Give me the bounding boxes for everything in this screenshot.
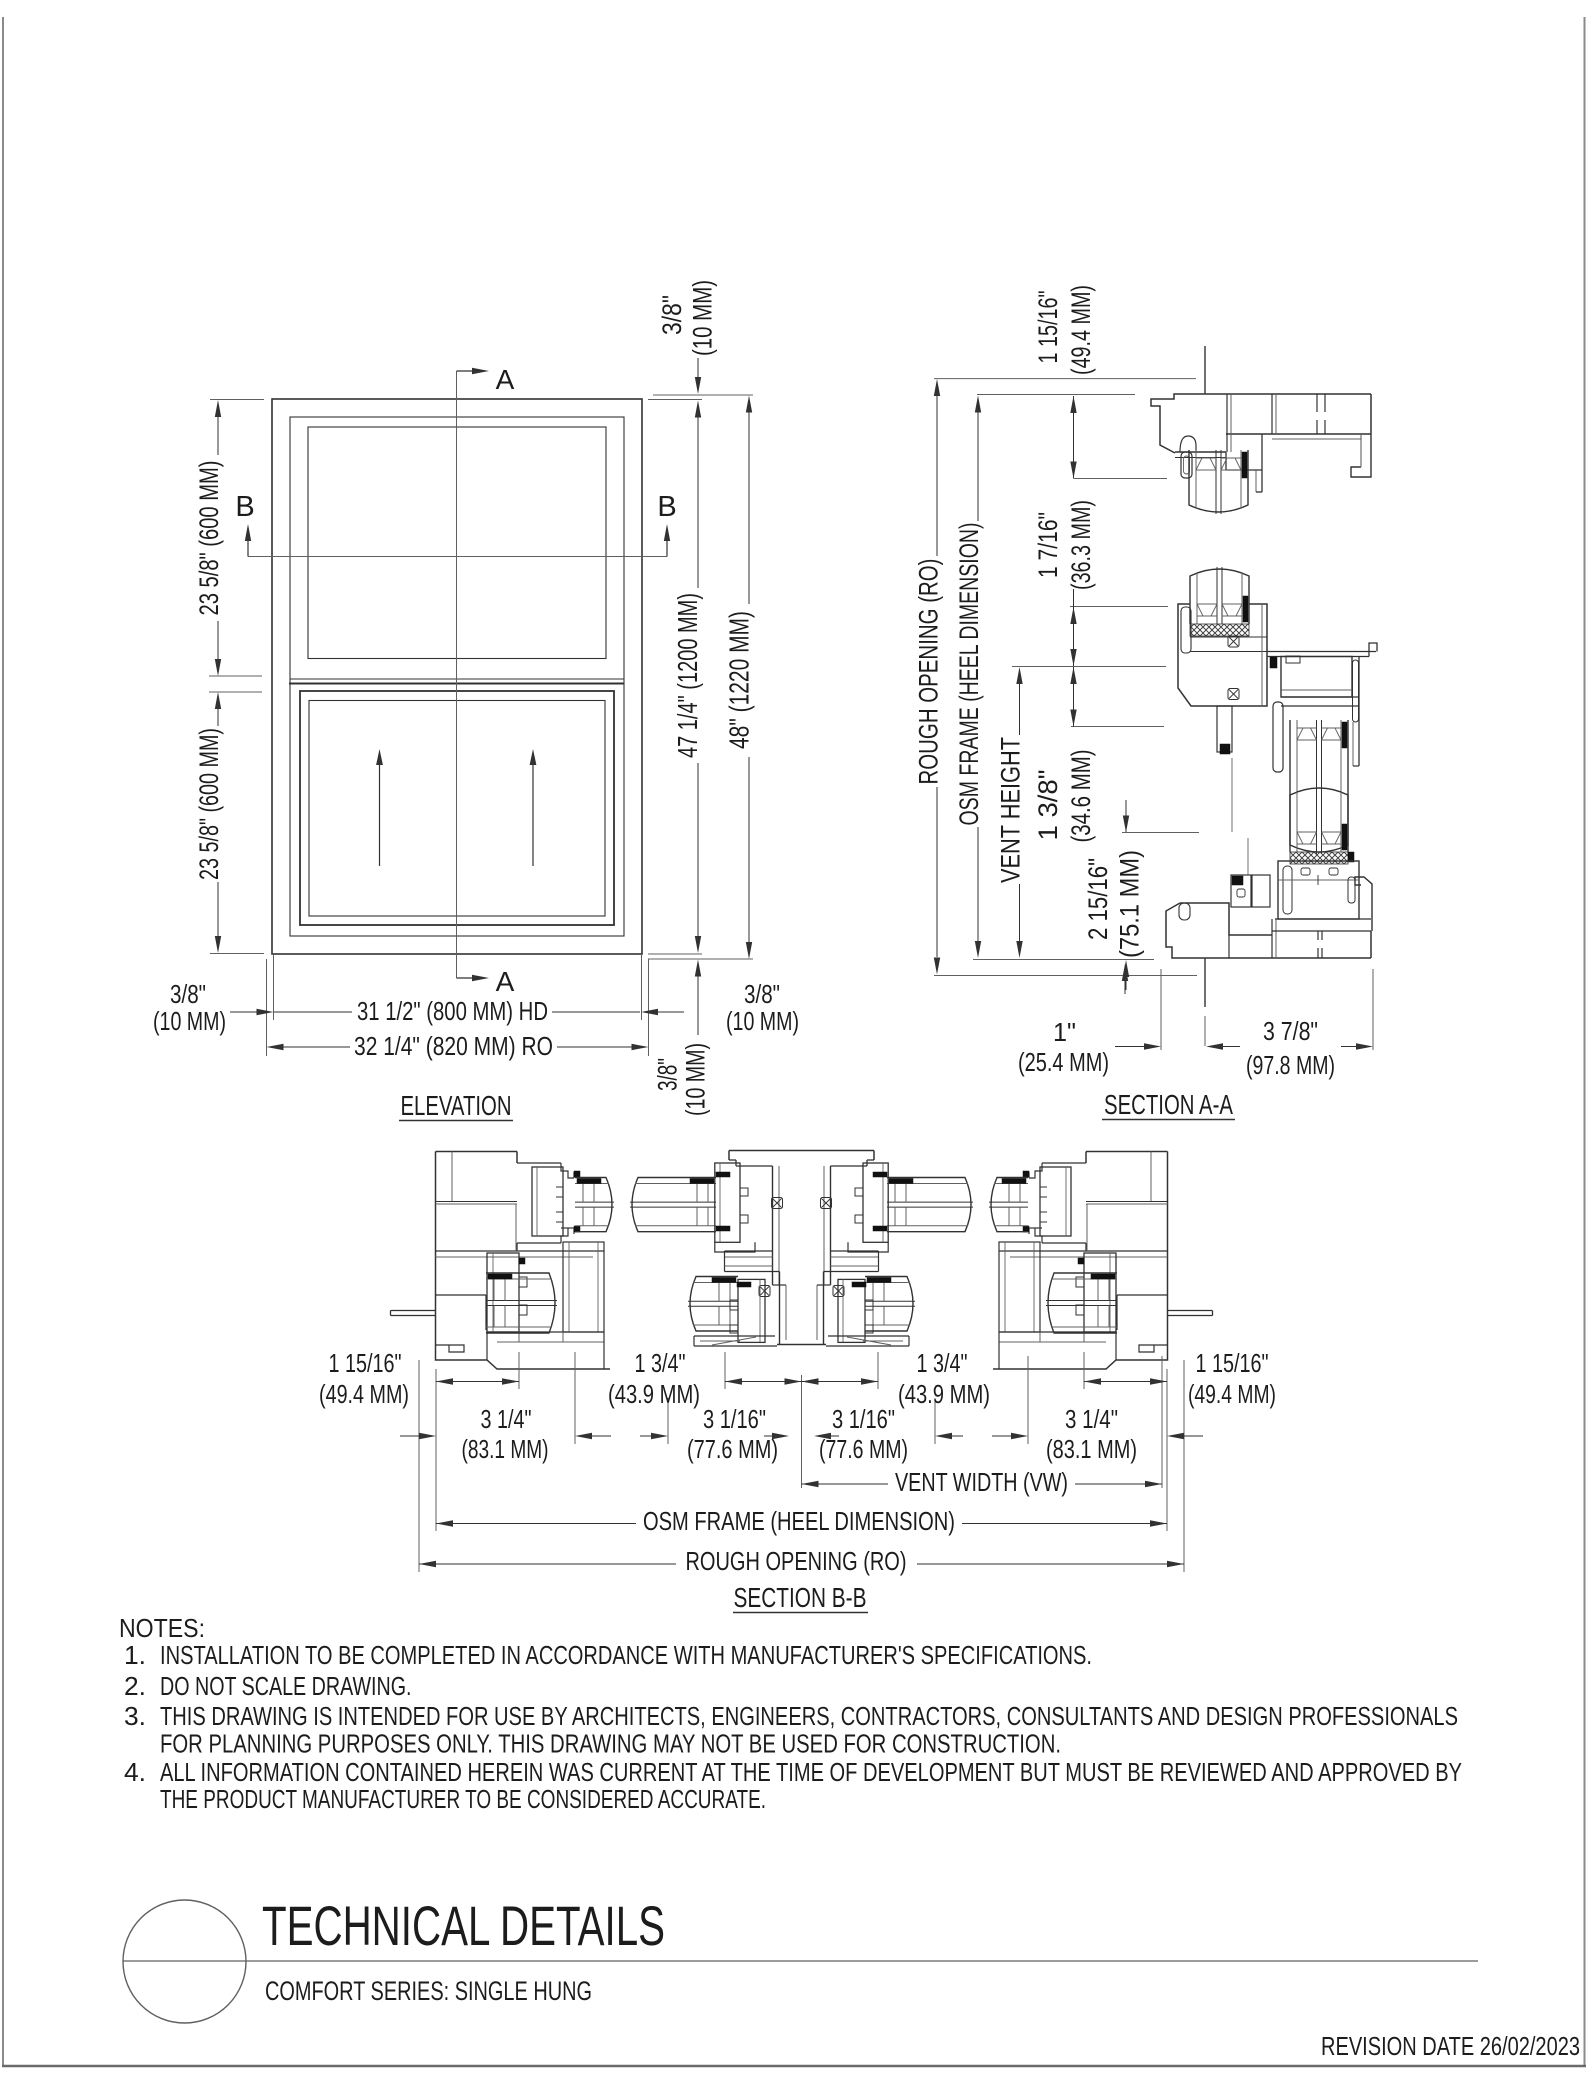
svg-text:1 15/16": 1 15/16" bbox=[1196, 1348, 1269, 1378]
svg-text:23 5/8" (600 MM): 23 5/8" (600 MM) bbox=[194, 728, 224, 880]
svg-text:(10 MM): (10 MM) bbox=[153, 1006, 226, 1036]
svg-text:ELEVATION: ELEVATION bbox=[401, 1090, 512, 1121]
svg-text:(36.3 MM): (36.3 MM) bbox=[1066, 500, 1096, 590]
svg-text:(25.4 MM): (25.4 MM) bbox=[1018, 1047, 1109, 1077]
svg-text:VENT WIDTH (VW): VENT WIDTH (VW) bbox=[895, 1467, 1068, 1497]
svg-text:SECTION A-A: SECTION A-A bbox=[1104, 1089, 1233, 1120]
svg-text:(75.1 MM): (75.1 MM) bbox=[1115, 850, 1145, 958]
svg-text:SECTION B-B: SECTION B-B bbox=[734, 1582, 867, 1613]
svg-text:1 3/4": 1 3/4" bbox=[917, 1348, 968, 1378]
svg-text:(49.4 MM): (49.4 MM) bbox=[1066, 285, 1096, 375]
svg-text:1 15/16": 1 15/16" bbox=[329, 1348, 402, 1378]
svg-text:VENT HEIGHT: VENT HEIGHT bbox=[996, 737, 1026, 883]
svg-text:23 5/8" (600 MM): 23 5/8" (600 MM) bbox=[194, 461, 224, 616]
svg-text:B: B bbox=[657, 491, 676, 523]
svg-text:ROUGH OPENING (RO): ROUGH OPENING (RO) bbox=[914, 559, 944, 785]
svg-text:NOTES:: NOTES: bbox=[119, 1613, 205, 1643]
svg-text:INSTALLATION TO BE COMPLETED I: INSTALLATION TO BE COMPLETED IN ACCORDAN… bbox=[160, 1640, 1092, 1670]
svg-text:3 1/4": 3 1/4" bbox=[1065, 1404, 1118, 1434]
svg-text:(10 MM): (10 MM) bbox=[688, 280, 718, 356]
svg-text:1.: 1. bbox=[124, 1640, 146, 1670]
svg-text:THIS DRAWING IS INTENDED FOR U: THIS DRAWING IS INTENDED FOR USE BY ARCH… bbox=[160, 1701, 1458, 1731]
svg-text:3 1/16": 3 1/16" bbox=[832, 1404, 895, 1434]
svg-text:B: B bbox=[235, 491, 254, 523]
svg-text:ROUGH OPENING (RO): ROUGH OPENING (RO) bbox=[686, 1546, 907, 1576]
svg-text:(10 MM): (10 MM) bbox=[726, 1006, 799, 1036]
svg-text:(77.6 MM): (77.6 MM) bbox=[819, 1434, 908, 1464]
svg-text:3/8": 3/8" bbox=[653, 1058, 683, 1091]
svg-text:4.: 4. bbox=[124, 1757, 146, 1787]
svg-text:3 7/8": 3 7/8" bbox=[1263, 1016, 1318, 1046]
svg-text:(43.9 MM): (43.9 MM) bbox=[608, 1379, 700, 1409]
svg-text:TECHNICAL DETAILS: TECHNICAL DETAILS bbox=[262, 1894, 665, 1957]
svg-text:1 3/4": 1 3/4" bbox=[635, 1348, 686, 1378]
svg-text:1": 1" bbox=[1053, 1017, 1076, 1047]
svg-text:(83.1 MM): (83.1 MM) bbox=[462, 1434, 549, 1464]
svg-text:DO NOT SCALE DRAWING.: DO NOT SCALE DRAWING. bbox=[160, 1671, 412, 1701]
svg-text:(83.1 MM): (83.1 MM) bbox=[1046, 1434, 1137, 1464]
svg-text:REVISION DATE 26/02/2023: REVISION DATE 26/02/2023 bbox=[1321, 2031, 1580, 2061]
svg-text:3.: 3. bbox=[124, 1701, 146, 1731]
svg-text:(49.4 MM): (49.4 MM) bbox=[1188, 1379, 1276, 1409]
svg-text:A: A bbox=[496, 364, 515, 395]
svg-text:FOR PLANNING PURPOSES ONLY. T: FOR PLANNING PURPOSES ONLY. THIS DRAWING… bbox=[160, 1729, 1061, 1759]
svg-text:OSM FRAME (HEEL DIMENSION): OSM FRAME (HEEL DIMENSION) bbox=[954, 523, 984, 826]
svg-text:THE PRODUCT MANUFACTURER TO BE: THE PRODUCT MANUFACTURER TO BE CONSIDERE… bbox=[160, 1784, 766, 1814]
svg-text:3/8": 3/8" bbox=[744, 979, 780, 1009]
svg-text:1 3/8": 1 3/8" bbox=[1033, 770, 1063, 841]
svg-text:(49.4 MM): (49.4 MM) bbox=[319, 1379, 409, 1409]
svg-text:1 7/16": 1 7/16" bbox=[1033, 512, 1063, 578]
svg-text:OSM FRAME (HEEL DIMENSION): OSM FRAME (HEEL DIMENSION) bbox=[643, 1506, 955, 1536]
svg-text:3 1/16": 3 1/16" bbox=[703, 1404, 766, 1434]
svg-text:47 1/4" (1200 MM): 47 1/4" (1200 MM) bbox=[672, 593, 703, 758]
svg-text:3 1/4": 3 1/4" bbox=[481, 1404, 532, 1434]
svg-text:(77.6 MM): (77.6 MM) bbox=[687, 1434, 778, 1464]
svg-text:3/8": 3/8" bbox=[170, 979, 206, 1009]
svg-text:COMFORT SERIES: SINGLE HUNG: COMFORT SERIES: SINGLE HUNG bbox=[265, 1976, 592, 2006]
svg-text:(10 MM): (10 MM) bbox=[681, 1043, 711, 1116]
svg-text:48" (1220 MM): 48" (1220 MM) bbox=[724, 611, 755, 749]
svg-text:31 1/2" (800 MM) HD: 31 1/2" (800 MM) HD bbox=[357, 996, 548, 1026]
svg-text:(97.8 MM): (97.8 MM) bbox=[1246, 1050, 1335, 1080]
svg-text:32 1/4" (820 MM) RO: 32 1/4" (820 MM) RO bbox=[354, 1031, 553, 1061]
svg-text:(43.9 MM): (43.9 MM) bbox=[898, 1379, 990, 1409]
svg-text:A: A bbox=[496, 966, 515, 997]
svg-text:1 15/16": 1 15/16" bbox=[1033, 291, 1063, 364]
svg-text:(34.6 MM): (34.6 MM) bbox=[1066, 750, 1096, 843]
svg-text:3/8": 3/8" bbox=[657, 295, 687, 335]
svg-text:ALL INFORMATION CONTAINED HERE: ALL INFORMATION CONTAINED HEREIN WAS CUR… bbox=[160, 1757, 1462, 1787]
svg-text:2.: 2. bbox=[124, 1671, 146, 1701]
svg-text:2 15/16": 2 15/16" bbox=[1083, 858, 1113, 940]
